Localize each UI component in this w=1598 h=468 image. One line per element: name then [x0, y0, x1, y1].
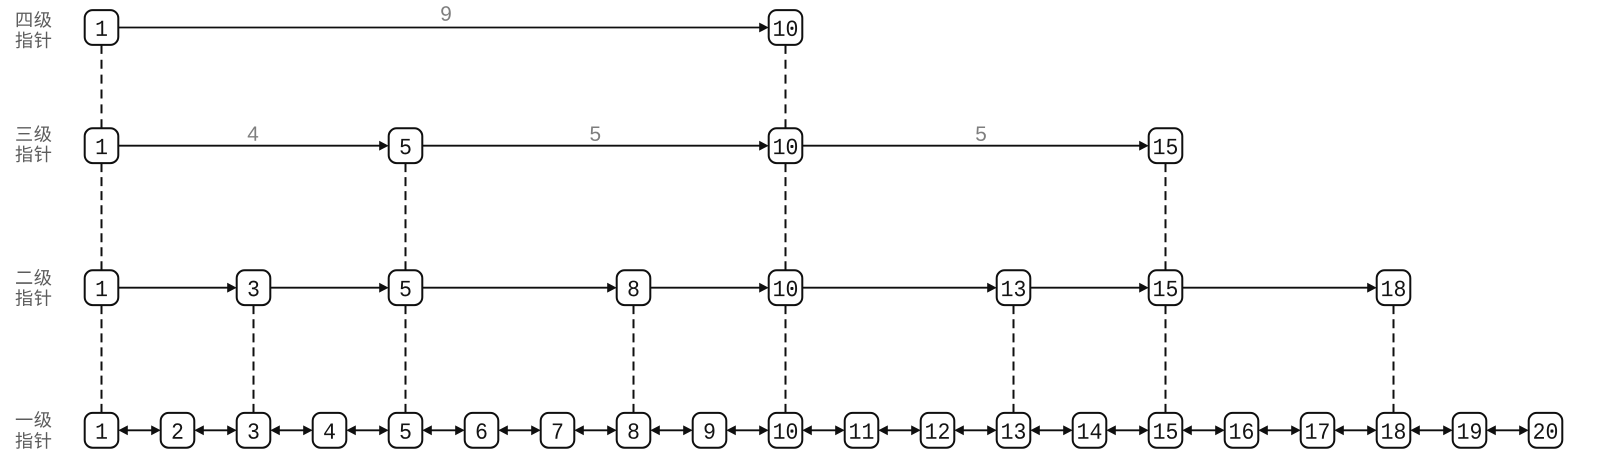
node L2-18 — [1377, 270, 1411, 305]
dashed link col 15 L2-L1 — [1165, 305, 1167, 413]
double arrow L1 2 and 3 — [203, 429, 228, 431]
node L3-15 — [1149, 128, 1183, 163]
node L1-16 — [1225, 413, 1259, 448]
dashed link col 8 L2-L1 — [633, 305, 635, 413]
row label 四级指针 — [16, 11, 52, 48]
dashed link col 1 L3-L2 — [101, 163, 103, 270]
row label 三级指针 — [16, 125, 52, 162]
dashed link col 10 L2-L1 — [785, 305, 787, 413]
node L1-15 — [1149, 413, 1183, 448]
node L2-15 — [1149, 270, 1183, 305]
node L1-6 — [465, 413, 499, 448]
arrow L3 10 to 15 — [802, 145, 1140, 147]
double arrow L1 5 and 6 — [431, 429, 456, 431]
double arrow L1 17 and 18 — [1343, 429, 1368, 431]
arrow L2 15 to 18 — [1182, 287, 1368, 289]
dashed link col 10 L3-L2 — [785, 163, 787, 270]
node L1-14 — [1073, 413, 1107, 448]
span label 5 — [590, 127, 600, 142]
node L1-8 — [617, 413, 651, 448]
node L1-10 — [769, 413, 803, 448]
double arrow L1 6 and 7 — [507, 429, 532, 431]
dashed link col 5 L2-L1 — [405, 305, 407, 413]
node L1-9 — [693, 413, 727, 448]
node L1-2 — [161, 413, 195, 448]
dashed link col 13 L2-L1 — [1013, 305, 1015, 413]
node L4-10 — [769, 10, 803, 45]
double arrow L1 15 and 16 — [1191, 429, 1216, 431]
double arrow L1 16 and 17 — [1267, 429, 1292, 431]
arrow L3 1 to 5 — [118, 145, 380, 147]
node L1-5 — [389, 413, 423, 448]
span label 4 — [248, 127, 258, 141]
node L1-3 — [237, 413, 271, 448]
node L1-12 — [921, 413, 955, 448]
arrow L2 13 to 15 — [1030, 287, 1140, 289]
double arrow L1 9 and 10 — [735, 429, 760, 431]
node L1-13 — [997, 413, 1031, 448]
double arrow L1 12 and 13 — [963, 429, 988, 431]
row label 一级指针 — [16, 411, 52, 449]
node L1-18 — [1377, 413, 1411, 448]
arrow L2 10 to 13 — [802, 287, 988, 289]
arrow L2 5 to 8 — [422, 287, 608, 289]
node L2-13 — [997, 270, 1031, 305]
node L3-10 — [769, 128, 803, 163]
node L2-5 — [389, 270, 423, 305]
double arrow L1 19 and 20 — [1495, 429, 1520, 431]
node L3-1 — [85, 128, 119, 163]
double arrow L1 10 and 11 — [811, 429, 836, 431]
arrow L3 5 to 10 — [422, 145, 760, 147]
span label 5 — [976, 127, 986, 142]
arrow L2 3 to 5 — [270, 287, 380, 289]
span label 9 — [441, 6, 451, 21]
node L1-11 — [845, 413, 879, 448]
double arrow L1 11 and 12 — [887, 429, 912, 431]
double arrow L1 13 and 14 — [1039, 429, 1064, 431]
double arrow L1 18 and 19 — [1419, 429, 1444, 431]
arrow L2 8 to 10 — [650, 287, 760, 289]
dashed link col 1 L2-L1 — [101, 305, 103, 413]
node L1-4 — [313, 413, 347, 448]
node L3-5 — [389, 128, 423, 163]
node L2-3 — [237, 270, 271, 305]
dashed link col 15 L3-L2 — [1165, 163, 1167, 270]
arrow L4 1 to 10 — [118, 27, 760, 29]
node L2-1 — [85, 270, 119, 305]
double arrow L1 14 and 15 — [1115, 429, 1140, 431]
dashed link col 10 L4-L3 — [785, 45, 787, 128]
node L2-8 — [617, 270, 651, 305]
dashed link col 18 L2-L1 — [1393, 305, 1395, 413]
arrow L2 1 to 3 — [118, 287, 228, 289]
double arrow L1 7 and 8 — [583, 429, 608, 431]
dashed link col 1 L4-L3 — [101, 45, 103, 128]
dashed link col 3 L2-L1 — [253, 305, 255, 413]
double arrow L1 1 and 2 — [127, 429, 152, 431]
node L2-10 — [769, 270, 803, 305]
node L1-17 — [1301, 413, 1335, 448]
node L1-7 — [541, 413, 575, 448]
node L1-20 — [1529, 413, 1563, 448]
double arrow L1 8 and 9 — [659, 429, 684, 431]
node L1-1 — [85, 413, 119, 448]
dashed link col 5 L3-L2 — [405, 163, 407, 270]
double arrow L1 3 and 4 — [279, 429, 304, 431]
node L1-19 — [1453, 413, 1487, 448]
double arrow L1 4 and 5 — [355, 429, 380, 431]
node L4-1 — [85, 10, 119, 45]
row label 二级指针 — [16, 269, 52, 306]
